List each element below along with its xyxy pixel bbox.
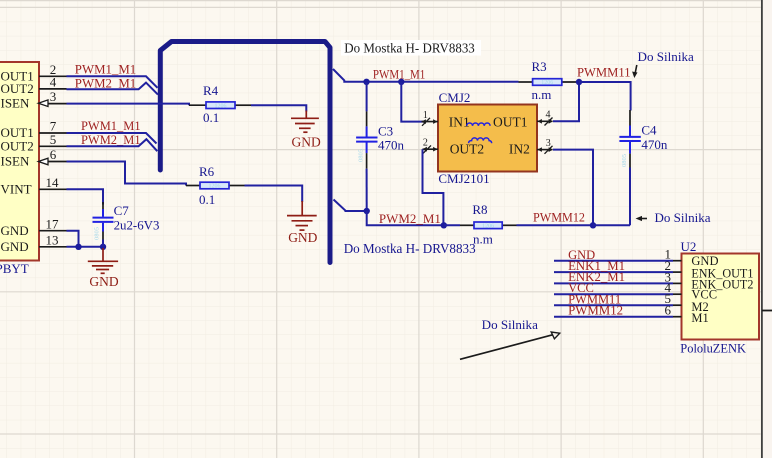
svg-text:OUT2: OUT2 (1, 138, 34, 153)
ground GND (R4) (291, 111, 319, 133)
U2 pin 2 (554, 258, 682, 273)
wire R8 to junction (517, 224, 594, 226)
wire pin14 to C7 (67, 189, 104, 204)
wire pin5 (67, 139, 158, 151)
text Do Mostka H- DRV8833 (top) (341, 40, 481, 57)
ground GND (C7) (88, 248, 118, 273)
svg-text:4: 4 (546, 110, 551, 121)
wire pin6 to R6 (67, 162, 187, 186)
svg-text:2: 2 (423, 138, 428, 149)
svg-text:R8: R8 (472, 202, 487, 217)
svg-text:U2: U2 (681, 239, 697, 254)
sheet outside area right (763, 0, 772, 458)
junction R3 right (576, 79, 582, 85)
CMJ2 pin 2 (423, 138, 439, 154)
svg-text:2u2-6V3: 2u2-6V3 (114, 218, 160, 233)
sheet border (761, 0, 763, 458)
svg-text:PWM1_M1: PWM1_M1 (75, 62, 136, 76)
svg-text:6: 6 (50, 147, 57, 162)
thick decorative polyline (160, 42, 330, 263)
svg-text:R3: R3 (532, 59, 547, 74)
U2 pin 3 (554, 269, 682, 284)
svg-text:C7: C7 (114, 203, 130, 218)
wire pin7 (67, 133, 157, 144)
wire branch to CMJ2 pin1 (401, 82, 424, 122)
svg-text:Do Mostka H- DRV8833: Do Mostka H- DRV8833 (344, 242, 476, 257)
svg-text:R6: R6 (199, 164, 215, 179)
resistor R3 (519, 79, 579, 87)
svg-text:CMJ2: CMJ2 (439, 90, 471, 105)
svg-text:C4: C4 (641, 123, 657, 138)
pin 13 stub (39, 246, 67, 248)
wire R3 to PWMM11 corner (579, 82, 631, 111)
svg-text:GND: GND (288, 230, 317, 245)
wire CMJ2 pin3 down (553, 150, 593, 226)
svg-text:1206: 1206 (209, 184, 221, 190)
resistor R6 (186, 182, 245, 190)
svg-text:ISEN: ISEN (1, 95, 31, 110)
pin 14 stub (39, 188, 67, 190)
svg-text:n.m: n.m (532, 87, 552, 102)
svg-text:3: 3 (50, 89, 57, 104)
resistor R4 (189, 102, 251, 110)
CMJ2 pin 1 (422, 110, 439, 126)
capacitor C3 (356, 82, 377, 211)
junction pin2/R8 (441, 222, 447, 228)
sheet frame tick (762, 310, 772, 312)
svg-text:PWMM11: PWMM11 (577, 66, 631, 80)
svg-text:IN2: IN2 (509, 142, 530, 157)
svg-text:CMJ2101: CMJ2101 (438, 171, 489, 186)
wire R6 to GND (245, 186, 303, 203)
wire pin13 (67, 246, 104, 248)
junction pin17/pin13 (75, 244, 81, 250)
svg-text:0.1: 0.1 (203, 110, 219, 125)
svg-text:1206: 1206 (482, 224, 494, 230)
arrow (top right, down) (632, 65, 637, 78)
U2 pin 6 (554, 303, 682, 318)
svg-text:6: 6 (665, 303, 672, 318)
svg-text:IN1: IN1 (449, 114, 470, 129)
wire PWM1 net (right of thick line) (333, 69, 519, 82)
svg-text:14: 14 (46, 175, 60, 190)
ground GND (R6) (287, 201, 317, 230)
junction pin1 branch (398, 79, 404, 85)
svg-text:Do Mostka H- DRV8833: Do Mostka H- DRV8833 (344, 42, 475, 57)
svg-text:3: 3 (546, 138, 551, 149)
wire pin4 (67, 83, 158, 95)
svg-text:4: 4 (50, 75, 57, 90)
svg-text:0805: 0805 (358, 149, 365, 162)
svg-text:n.m: n.m (473, 231, 493, 246)
CMJ2 coil 1 (467, 123, 490, 126)
CMJ2 coil 2 (469, 138, 492, 143)
arrow (mid right, left-pointing) (636, 216, 648, 221)
capacitor C7 (93, 202, 114, 247)
svg-text:OUT2: OUT2 (1, 81, 34, 96)
wire PWM2 net (right of thick line) (334, 200, 367, 212)
svg-text:1: 1 (423, 110, 428, 121)
svg-text:470n: 470n (641, 137, 668, 152)
junction C3 top (363, 79, 369, 85)
CMJ2 pin 3 (537, 138, 553, 154)
U2 pin 1 (554, 247, 682, 262)
svg-text:0805: 0805 (621, 154, 628, 167)
wire PWM2 down segment (367, 211, 444, 225)
IC U2 body (682, 254, 760, 340)
svg-text:470n: 470n (378, 137, 405, 152)
svg-text:1206: 1206 (541, 80, 553, 86)
svg-text:GND: GND (292, 134, 321, 149)
svg-text:5: 5 (50, 132, 57, 147)
svg-text:GND: GND (1, 239, 29, 254)
pin 2 stub (39, 75, 67, 77)
pin 7 stub (39, 132, 67, 134)
wire CMJ2 pin2 down (423, 149, 444, 225)
svg-text:OUT1: OUT1 (493, 114, 528, 129)
svg-text:VINT: VINT (1, 181, 32, 196)
pin 4 stub (39, 88, 67, 90)
wire junction to C4 bottom (593, 224, 630, 226)
svg-text:0.1: 0.1 (199, 192, 215, 207)
svg-text:GND: GND (1, 223, 29, 238)
svg-text:M1: M1 (691, 311, 708, 325)
U2 pin 4 (554, 280, 682, 295)
wire pin3 to R4 (67, 104, 190, 106)
svg-text:ISEN: ISEN (1, 154, 31, 169)
wire pin17 (67, 231, 79, 247)
junction pin3/C4 (590, 222, 596, 228)
pin 3 stub with input arrow (38, 100, 66, 107)
U2 pin 5 (554, 291, 682, 307)
svg-text:1206: 1206 (215, 103, 227, 109)
capacitor C4 (619, 110, 640, 225)
svg-text:PBYT: PBYT (0, 261, 29, 276)
svg-text:GND: GND (89, 274, 118, 289)
arrow (bottom, long up-right) (460, 332, 560, 359)
pin 5 stub (39, 145, 67, 147)
svg-text:17: 17 (46, 216, 60, 231)
svg-text:0805: 0805 (94, 227, 101, 240)
svg-text:13: 13 (46, 233, 59, 248)
svg-text:Do Silnika: Do Silnika (482, 317, 538, 332)
svg-text:PWM2_M1: PWM2_M1 (379, 212, 441, 226)
svg-text:PWMM12: PWMM12 (568, 304, 623, 318)
wire pin2 (67, 76, 158, 88)
junction C7/pin13 (100, 244, 106, 250)
CMJ2 pin 4 (537, 110, 553, 126)
svg-text:PWMM12: PWMM12 (533, 210, 585, 224)
junction C3 bottom (364, 208, 370, 214)
svg-text:PololuZENK: PololuZENK (680, 340, 746, 355)
svg-text:PWM1_M1: PWM1_M1 (81, 119, 141, 133)
IC CMJ2 body (438, 105, 537, 172)
svg-text:PWM2_M1: PWM2_M1 (81, 133, 141, 147)
pin 17 stub (39, 230, 67, 232)
resistor R8 (444, 222, 517, 230)
svg-text:OUT2: OUT2 (450, 142, 485, 157)
svg-text:Do Silnika: Do Silnika (638, 49, 695, 64)
pin 6 stub with input arrow (38, 158, 66, 165)
svg-text:Do Silnika: Do Silnika (655, 210, 711, 225)
svg-text:R4: R4 (203, 83, 219, 98)
wire R4 to GND (251, 105, 306, 111)
IC U? (left, cut off) body (0, 62, 39, 261)
wire CMJ2 pin4 to R3 junction (553, 82, 579, 121)
